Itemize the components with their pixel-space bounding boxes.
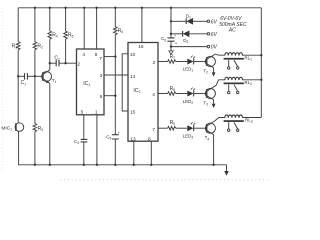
svg-text:3: 3 bbox=[100, 73, 103, 79]
capacitor C6 electrolytic bbox=[167, 38, 174, 41]
svg-text:15: 15 bbox=[130, 109, 136, 115]
svg-text:+: + bbox=[118, 130, 121, 135]
resistor R7 bbox=[158, 61, 168, 63]
svg-text:10: 10 bbox=[130, 52, 136, 58]
svg-text:RL3: RL3 bbox=[245, 118, 253, 124]
svg-text:C2: C2 bbox=[54, 55, 60, 61]
ground symbol bottom right bbox=[226, 165, 228, 171]
svg-text:16: 16 bbox=[138, 44, 144, 50]
svg-text:T2: T2 bbox=[203, 68, 208, 74]
wire IC1 pin1 to ground bbox=[96, 115, 98, 165]
svg-text:LED3: LED3 bbox=[183, 134, 194, 140]
svg-text:T3: T3 bbox=[203, 101, 208, 107]
svg-text:R3: R3 bbox=[38, 126, 44, 132]
svg-text:4: 4 bbox=[82, 52, 85, 58]
svg-text:14: 14 bbox=[130, 74, 136, 80]
svg-text:13: 13 bbox=[130, 136, 136, 142]
wire node to MIC bbox=[17, 76, 19, 123]
resistor R6 bbox=[114, 8, 116, 27]
resistor R1 bbox=[17, 8, 19, 42]
wire IC1 pin8 to +V bbox=[96, 8, 98, 49]
resistor R2 bbox=[34, 8, 36, 42]
svg-text:R8: R8 bbox=[170, 86, 176, 92]
capacitor C4 bbox=[83, 115, 85, 139]
wire IC1 pin6 bbox=[104, 95, 115, 97]
node R2/R3/base bbox=[34, 75, 36, 77]
LED2 bbox=[187, 91, 193, 97]
transistor T1 bbox=[49, 63, 51, 70]
diode D1 bbox=[171, 20, 186, 22]
wire MIC to ground rail bbox=[18, 131, 20, 165]
wire C1 to T1 base bbox=[28, 75, 43, 77]
resistor R5 bbox=[65, 8, 67, 31]
svg-text:D2: D2 bbox=[183, 38, 188, 44]
wire IC2 pin13 to ground bbox=[133, 141, 135, 165]
svg-text:8: 8 bbox=[148, 136, 151, 142]
svg-text:LED1: LED1 bbox=[183, 67, 194, 73]
svg-text:R4: R4 bbox=[52, 32, 58, 38]
svg-text:C6: C6 bbox=[161, 36, 166, 42]
border dotted bottom bbox=[60, 179, 271, 181]
svg-text:AC: AC bbox=[228, 27, 236, 33]
transistor T2 bbox=[205, 57, 215, 67]
wire +V top rail bbox=[18, 7, 261, 9]
microphone MIC1 bbox=[15, 123, 24, 132]
svg-text:2: 2 bbox=[153, 60, 156, 66]
svg-text:5: 5 bbox=[81, 110, 84, 116]
wire IC1 pin3 to IC2 pin14 bbox=[104, 74, 128, 76]
node R5/pin2 bbox=[64, 62, 66, 64]
svg-text:IC2: IC2 bbox=[133, 88, 140, 94]
svg-text:7: 7 bbox=[99, 56, 102, 62]
wire 0V row bbox=[171, 46, 207, 48]
diode D2 bbox=[171, 33, 182, 35]
svg-text:C1: C1 bbox=[21, 80, 27, 86]
svg-text:T1: T1 bbox=[52, 78, 57, 84]
resistor R8 bbox=[158, 93, 168, 95]
svg-text:R9: R9 bbox=[170, 120, 176, 126]
svg-text:T4: T4 bbox=[205, 135, 210, 141]
capacitor C2 bbox=[50, 62, 56, 64]
relay RL3 bbox=[225, 115, 243, 118]
svg-text:6V: 6V bbox=[211, 19, 218, 25]
wire IC2 pin8 to ground bbox=[150, 141, 152, 165]
wire T1 emitter to ground bbox=[49, 83, 51, 164]
capacitor C1 bbox=[18, 75, 24, 77]
svg-text:RL2: RL2 bbox=[244, 80, 252, 86]
wire right +V rail bbox=[260, 8, 262, 118]
svg-text:7: 7 bbox=[152, 127, 155, 133]
resistor R9 bbox=[158, 127, 168, 129]
terminal 6V lower bbox=[207, 33, 210, 36]
svg-text:R6: R6 bbox=[118, 28, 124, 34]
wire IC2 pin16 to +V bbox=[141, 8, 143, 43]
svg-text:C5: C5 bbox=[106, 134, 111, 140]
svg-text:LED2: LED2 bbox=[183, 99, 194, 105]
counter IC2 box bbox=[128, 43, 158, 142]
svg-text:R2: R2 bbox=[37, 43, 43, 49]
terminal 0V bbox=[207, 45, 210, 48]
capacitor C5 electrolytic bbox=[112, 135, 119, 139]
svg-text:MIC1: MIC1 bbox=[1, 125, 12, 131]
transistor T4 bbox=[205, 123, 215, 133]
wire R2 to base node bbox=[34, 50, 36, 77]
wire R6 to pin7/pin6 bbox=[114, 35, 116, 135]
op-amp IC1 box bbox=[77, 49, 105, 115]
svg-text:1: 1 bbox=[95, 110, 98, 116]
border dotted left bbox=[1, 8, 3, 172]
svg-text:IC1: IC1 bbox=[83, 81, 90, 87]
wire ground bottom rail bbox=[18, 164, 226, 166]
svg-text:8: 8 bbox=[95, 52, 98, 58]
LED3 bbox=[187, 125, 193, 131]
wire IC2 pin10 to pin15 bbox=[122, 54, 128, 111]
wire R4 to collector node bbox=[49, 39, 51, 63]
relay RL2 bbox=[225, 77, 243, 80]
resistor R3 bbox=[34, 76, 36, 123]
wire IC1 pin4 to +V bbox=[83, 8, 85, 49]
wire rectifier +V column bbox=[170, 8, 172, 38]
LED1 bbox=[187, 59, 193, 65]
wire IC1 pin7 bbox=[104, 56, 115, 58]
svg-text:R5: R5 bbox=[68, 32, 74, 38]
svg-text:RL1: RL1 bbox=[244, 55, 252, 61]
ground arrow 0V bbox=[170, 47, 172, 51]
svg-text:2: 2 bbox=[77, 62, 80, 68]
svg-text:6V: 6V bbox=[211, 32, 218, 38]
wire R1 to C1 node bbox=[17, 50, 19, 77]
svg-text:R7: R7 bbox=[170, 54, 176, 60]
transistor T3 bbox=[205, 89, 215, 99]
node R1/C1/MIC bbox=[17, 75, 19, 77]
node collector/C2 bbox=[49, 62, 51, 64]
svg-text:C4: C4 bbox=[74, 139, 79, 145]
relay RL1 bbox=[225, 53, 243, 56]
wire C2 to IC1 pin2 bbox=[59, 62, 76, 64]
svg-text:0V: 0V bbox=[211, 45, 218, 51]
svg-text:4: 4 bbox=[152, 92, 155, 98]
resistor R4 bbox=[49, 8, 51, 31]
terminal 6V upper bbox=[207, 20, 210, 23]
svg-text:6: 6 bbox=[100, 94, 103, 100]
